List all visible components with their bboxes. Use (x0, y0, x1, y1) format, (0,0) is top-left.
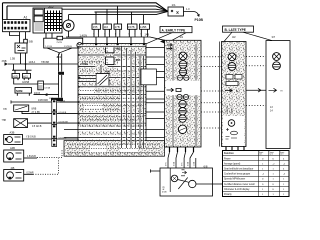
ignition switch 3/1 circle (63, 20, 74, 31)
wire sender A3B out (23, 138, 79, 140)
label A. EARLY TYPE (160, 27, 192, 33)
rheostat 3/4 box (44, 36, 83, 48)
wire dotted link 1 (201, 56, 222, 58)
bulb at rheostat (77, 43, 82, 48)
svg-text:7/59 B8: 7/59 B8 (41, 62, 50, 64)
instrument panel A early type 3/1 (165, 40, 202, 147)
leader late-type to panel left (224, 32, 232, 41)
labels vertical wire codes (166, 161, 196, 166)
svg-text:4/B: 4/B (163, 186, 166, 190)
cluster lower band (64, 141, 165, 157)
node entry arrows panel A (165, 46, 168, 139)
svg-text:FUSE: FUSE (81, 62, 89, 66)
wire cluster h6 (60, 101, 146, 103)
arrow m right panel (269, 88, 283, 92)
wire cluster h7 (78, 113, 146, 115)
wire stub into speedo unit (151, 169, 161, 172)
speedometer unit 6/8 (160, 165, 213, 196)
wire relay down (20, 53, 22, 64)
lamp connector 157B (128, 12, 138, 37)
svg-text:17B: 17B (115, 25, 120, 29)
wire fusebox stubs down (46, 33, 52, 38)
svg-text:m: m (281, 90, 283, 93)
arrow into panel A (167, 88, 182, 92)
wire gap crossing 5 (156, 77, 164, 79)
wire cluster h4 (78, 86, 146, 88)
wire 400.B (34, 94, 59, 96)
svg-text:Odometer & LCD display: Odometer & LCD display (224, 188, 250, 191)
svg-text:3/7: 3/7 (272, 35, 276, 39)
wire gap crossing 9 (146, 111, 165, 113)
svg-text:m: m (236, 90, 238, 93)
wire gap crossing 2 (146, 56, 165, 58)
function table (223, 151, 290, 197)
svg-text:7/8: 7/8 (3, 107, 7, 111)
svg-text:0.5B: 0.5B (188, 161, 190, 166)
wire 0.5GN.B (28, 122, 79, 124)
wire cluster h10 (64, 137, 165, 139)
svg-text:1.0B: 1.0B (193, 161, 195, 166)
fuse S/B inline (24, 39, 28, 43)
svg-text:2Y 0.5B: 2Y 0.5B (32, 112, 41, 114)
wire dotted link 8 (246, 105, 266, 107)
svg-text:Seat belt/bulb test lamp/door: Seat belt/bulb test lamp/door (224, 168, 253, 171)
svg-text:3/1: 3/1 (180, 35, 184, 39)
svg-text:400.B: 400.B (34, 93, 40, 95)
wire dotted link 6 (246, 65, 266, 67)
white zone in panel A (166, 81, 200, 96)
svg-text:0.5GN.B: 0.5GN.B (59, 112, 67, 114)
wire dim feeds vertical (59, 54, 62, 98)
node junction y64 (25, 63, 27, 65)
sender 4/B (4, 166, 24, 181)
svg-text:7H8: 7H8 (2, 119, 7, 122)
tag +15DOR (51, 98, 63, 102)
svg-text:1.5GN.B: 1.5GN.B (27, 156, 36, 158)
wire cluster h0 (78, 45, 146, 47)
svg-text:116: 116 (104, 25, 109, 29)
wire dotted link 4c (201, 127, 222, 129)
wire connector pin down-left (10, 32, 20, 36)
relay 2/4 (15, 43, 27, 53)
svg-text:Polarity: Polarity (224, 193, 233, 196)
svg-text:A. EARLY TYPE: A. EARLY TYPE (162, 28, 186, 32)
svg-text:Y.B GN.B: Y.B GN.B (26, 137, 36, 139)
wire dotted link 4 (201, 102, 222, 104)
node cluster top pins (95, 43, 145, 46)
lamp D1 (273, 53, 281, 61)
svg-text:H1D: H1D (13, 74, 18, 78)
svg-text:3/2: 3/2 (232, 35, 236, 39)
lamp B5 (179, 100, 186, 107)
svg-text:4/9B: 4/9B (105, 71, 110, 74)
svg-text:GN/SB: GN/SB (22, 82, 30, 84)
wires panel A to speedo unit (168, 152, 196, 168)
wire gap crossing 1 (146, 47, 165, 49)
lamp B8 (0, 0, 187, 134)
wire gap crossing 10 (146, 118, 165, 120)
svg-text:6/8: 6/8 (204, 165, 208, 169)
wire cluster vertical bundle (122, 46, 144, 148)
wire y102 (11, 101, 78, 103)
svg-text:Power: Power (224, 157, 231, 160)
svg-text:4/9B: 4/9B (115, 59, 120, 62)
wire speedo to table (196, 183, 223, 185)
lamp connector 115B (140, 15, 150, 37)
wire dotted link 7 (246, 89, 266, 93)
svg-text:2V7B: 2V7B (57, 42, 63, 44)
lamp B3 (179, 68, 186, 75)
wire lamp risers to cluster (96, 37, 144, 44)
pcb module 4/9B mid (106, 57, 121, 65)
svg-text:1.5TB B: 1.5TB B (64, 46, 72, 48)
wire bus 5 (69, 12, 168, 15)
lamp connector 17B (114, 6, 122, 37)
svg-text:0.5B: 0.5B (174, 161, 176, 166)
leader late-type to panel right (243, 32, 272, 40)
cluster inner white patches (80, 60, 138, 153)
wire 1.0 to P10B (184, 12, 199, 16)
wire dotted link 4b (201, 111, 222, 113)
motor in speedo unit (171, 175, 178, 182)
wire dotted diagonal upper (37, 149, 62, 158)
svg-text:1.0: 1.0 (186, 7, 190, 11)
svg-text:43/B R4B: 43/B R4B (38, 100, 48, 102)
module 2/4B (96, 71, 110, 86)
svg-text:4.5TA: 4.5TA (44, 87, 50, 90)
connector 5/WB (15, 88, 31, 96)
wire cluster h8 (78, 122, 146, 124)
connector rail 21/5 (49, 98, 68, 147)
leader early-type to panel (172, 33, 186, 41)
svg-text:H15: H15 (23, 74, 28, 78)
svg-text:nal 3: nal 3 (280, 154, 284, 156)
svg-text:4/9B: 4/9B (115, 48, 120, 51)
wire lamp pin drops right (98, 33, 147, 38)
svg-text:1.5Y B: 1.5Y B (45, 46, 52, 48)
instrument panel B late type 3/2 (222, 42, 247, 147)
svg-text:A1: A1 (24, 16, 28, 20)
arrows in speedo unit (181, 170, 187, 176)
wire cluster h1 (78, 54, 146, 56)
svg-text:8/9B: 8/9B (32, 109, 37, 111)
ground 3/9B (2, 60, 9, 66)
svg-text:115B: 115B (140, 25, 146, 29)
instrument panel late right 3/7 (266, 41, 290, 149)
module cluster late small parts (225, 75, 242, 93)
wire feed drop left inner (6, 6, 8, 20)
wire bus 3 (62, 9, 168, 11)
connector 15A (38, 81, 51, 90)
svg-text:5/1B: 5/1B (48, 5, 54, 9)
wire bus 2 (7, 6, 168, 11)
lamp B1 (179, 52, 187, 60)
label B. LATE TYPE (223, 26, 254, 32)
wire ignition to bus (68, 15, 70, 20)
wire bus 30-feed top (3, 3, 168, 11)
wire speedo switch (178, 178, 189, 190)
fuse box 5/1 (33, 5, 62, 33)
svg-text:3/9B: 3/9B (2, 60, 7, 63)
wire connector pin with fuse S/B (25, 32, 27, 64)
lamp D2 (273, 62, 281, 70)
svg-text:S/B: S/B (29, 40, 33, 44)
svg-text:Coolant/fuel temp gauges: Coolant/fuel temp gauges (224, 173, 251, 176)
tag +30 (58, 72, 64, 76)
wire gap crossing 3 (146, 64, 165, 66)
svg-text:1: 1 (140, 34, 141, 36)
node entry arrows cluster (78, 54, 81, 125)
bulb H1D (12, 74, 20, 81)
svg-text:0.5WR: 0.5WR (27, 173, 34, 175)
wire cluster h2 (78, 66, 146, 68)
svg-text:0.5 GN.B: 0.5 GN.B (32, 126, 42, 128)
lamp C2 (228, 63, 236, 71)
combined instrument cluster 5/1 body (78, 44, 146, 157)
wire cluster h9 (64, 129, 165, 131)
wire cluster h5 (78, 94, 146, 96)
wire sender 4/B dotted to cluster (24, 173, 33, 175)
svg-text:B. LATE TYPE: B. LATE TYPE (225, 28, 246, 32)
svg-text:Average (panel): Average (panel) (224, 162, 241, 165)
wire dotted link 2 (201, 65, 222, 67)
wire gap crossing 7 (146, 98, 165, 100)
wire bulb bracket (12, 64, 32, 74)
panel A bottom pins (170, 147, 194, 152)
svg-text:157B: 157B (128, 25, 135, 29)
svg-text:nal 2: nal 2 (269, 154, 273, 156)
svg-text:155: 155 (93, 25, 98, 29)
relay 7H8 (2, 119, 28, 128)
node 14B arrow at panel corner (160, 40, 165, 44)
lamp B2 (179, 61, 187, 69)
wire main feed y64 (8, 63, 78, 65)
svg-text:14/8.A: 14/8.A (29, 61, 36, 64)
wire gap crossing 6 (146, 90, 165, 92)
svg-text:1: 1 (93, 34, 94, 36)
connector in gap 1/2 (141, 69, 156, 85)
svg-text:1.5B: 1.5B (10, 58, 15, 61)
sender A4B (4, 146, 24, 162)
svg-text:Certified distance meter recal: Certified distance meter recall (224, 183, 255, 186)
svg-text:1/1: 1/1 (172, 3, 177, 7)
wire y84 (14, 80, 59, 84)
wire panel B outer edge (219, 42, 221, 147)
leader 3/4 (47, 48, 72, 55)
wire gap crossing 4 (156, 71, 164, 73)
component rows texture in cluster (67, 62, 160, 153)
connector A1 (3, 16, 31, 32)
svg-text:1: 1 (115, 34, 116, 36)
wire 2Y 0.5B (22, 111, 78, 113)
svg-text:nal 1: nal 1 (259, 154, 263, 156)
sensor in speedo unit (189, 180, 196, 187)
svg-text:4/1B: 4/1B (162, 191, 167, 193)
gauge late speedometer (223, 105, 245, 146)
bulb H15 (23, 74, 31, 81)
svg-text:6/8KM: 6/8KM (232, 107, 234, 113)
wire ignition feed 1.4GN collector (66, 31, 165, 40)
flasher 7/8 (3, 105, 37, 111)
labels lamp pin numbers (93, 34, 148, 36)
leader early-type to cluster (146, 33, 172, 44)
connector 1/1 fan-in (168, 3, 184, 16)
wire sender A4B out (24, 157, 37, 159)
svg-text:SPEEDO: SPEEDO (227, 105, 229, 114)
svg-text:P10B: P10B (195, 18, 204, 22)
lamp connector 116B (103, 9, 111, 37)
sender A3B (4, 131, 23, 145)
wire dotted link 5 (246, 56, 266, 58)
panel B bottom pins (226, 147, 244, 151)
svg-text:1: 1 (104, 34, 105, 36)
svg-text:Speedo MPH/buzzer: Speedo MPH/buzzer (224, 178, 245, 181)
svg-text:Function: Function (224, 152, 234, 155)
wire cluster h3 (78, 76, 146, 82)
wire gap crossing 8 (146, 102, 165, 104)
svg-text:5/WB: 5/WB (16, 89, 23, 93)
wire connector pin to relay (19, 32, 21, 43)
lamp B6 (179, 108, 186, 115)
wire bus 4 (95, 11, 168, 13)
wire dotted link 3 (201, 90, 222, 92)
svg-text:1: 1 (128, 34, 129, 36)
wire feed drop left outer (2, 3, 4, 20)
svg-text:0.5GN.GR: 0.5GN.GR (59, 122, 69, 124)
svg-text:1.4GN: 1.4GN (80, 33, 88, 37)
lamp C1 (228, 53, 236, 61)
lamp connector 155 (92, 12, 100, 37)
lamp B4b pair (177, 94, 189, 99)
lamp B7 (179, 115, 186, 122)
svg-text:3/4: 3/4 (57, 55, 62, 59)
svg-text:A3B: A3B (10, 131, 15, 135)
lamp B4 pair (177, 75, 189, 80)
pcb module 4/9B upper (106, 46, 121, 53)
